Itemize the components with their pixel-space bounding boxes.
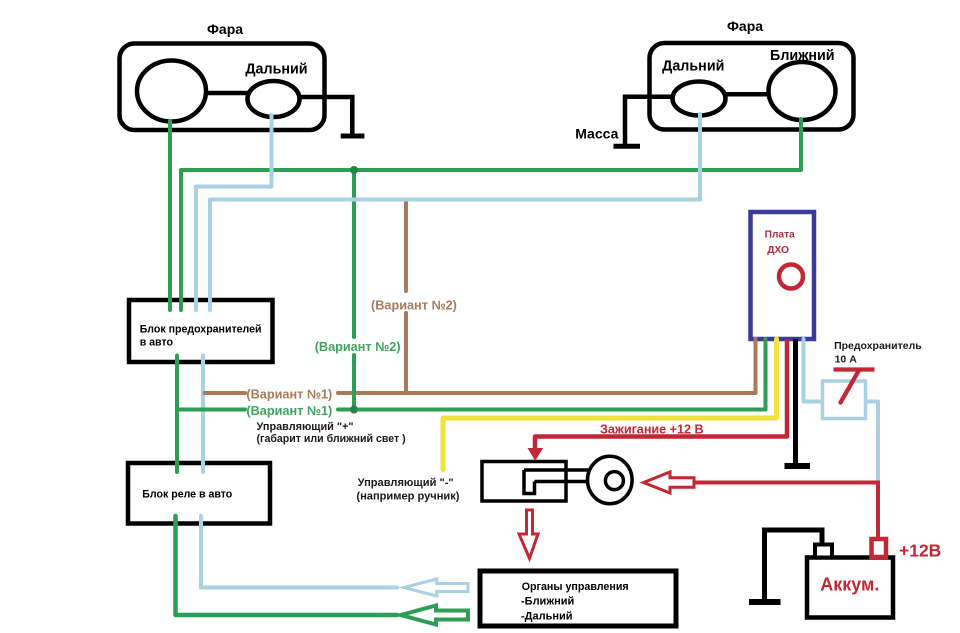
wire: green from right headlamp low-beam across to fuse box bbox=[181, 119, 801, 310]
svg-text:(например ручник): (например ручник) bbox=[356, 491, 459, 503]
svg-text:Дальний: Дальний bbox=[662, 59, 724, 75]
fuse F1 10A body bbox=[823, 381, 866, 419]
svg-text:Масса: Масса bbox=[575, 126, 618, 142]
right headlamp high-beam lamp bbox=[673, 82, 726, 116]
ground symbol: right headlamp bbox=[614, 144, 641, 149]
svg-text:Дальний: Дальний bbox=[245, 62, 307, 78]
wire: left headlamp to ground bbox=[300, 97, 353, 134]
wire: brown variant1 horizontal from light-blue tap to DRL board bbox=[205, 391, 246, 395]
ignition key shaft and bit bbox=[524, 470, 588, 494]
svg-text:Фара: Фара bbox=[727, 18, 763, 34]
ignition key switch body bbox=[482, 462, 566, 502]
ignition key head ring bbox=[588, 456, 633, 503]
svg-text:Управляющий "+": Управляющий "+" bbox=[257, 421, 354, 433]
wire: light blue from DRL board to fuse 10A bbox=[804, 339, 823, 402]
svg-text:Фара: Фара bbox=[207, 21, 243, 37]
arrow: green open arrow pointing left bbox=[401, 606, 468, 625]
ground symbol: left headlamp bbox=[341, 134, 365, 139]
battery negative terminal bbox=[815, 545, 832, 558]
left headlamp housing bbox=[120, 44, 325, 131]
wire: lamp interconnect right bbox=[726, 92, 769, 97]
DRL board indicator circle bbox=[779, 265, 803, 289]
ground symbol: DRL board ground bar bbox=[785, 463, 811, 469]
fuse F1 symbol red bbox=[834, 367, 875, 371]
svg-text:(Вариант №1): (Вариант №1) bbox=[246, 388, 332, 402]
svg-text:10 А: 10 А bbox=[835, 354, 858, 366]
left headlamp high-beam lamp bbox=[248, 81, 300, 117]
svg-text:+12В: +12В bbox=[899, 541, 941, 561]
arrow: light blue open arrow pointing left bbox=[404, 579, 468, 596]
right headlamp housing bbox=[650, 43, 854, 130]
wire: brown variant2 vertical from light-blue line bbox=[404, 200, 408, 292]
left headlamp low-beam lamp bbox=[137, 61, 206, 122]
ignition key head hole bbox=[605, 472, 623, 490]
arrow: red open arrow down from key to controls box bbox=[519, 510, 538, 559]
wire: green from relay box to controls (low beam) bbox=[176, 516, 398, 615]
wire: green variant1 horizontal to DRL board bbox=[177, 408, 245, 412]
svg-text:(Вариант №2): (Вариант №2) bbox=[315, 340, 401, 354]
svg-text:-Дальний: -Дальний bbox=[521, 611, 573, 623]
DRL board: Плата ДХО bbox=[751, 212, 815, 339]
wire: yellow control-minus from DRL board bbox=[443, 339, 777, 470]
svg-text:Блок реле в авто: Блок реле в авто bbox=[142, 489, 232, 501]
battery positive terminal bbox=[872, 539, 887, 557]
wire: light blue from fuse 10A to battery feed bbox=[866, 402, 878, 483]
svg-text:Органы управления: Органы управления bbox=[522, 581, 629, 593]
wire: light blue from fuse box bottom to relay box bbox=[201, 356, 205, 473]
svg-text:(Вариант №1): (Вариант №1) bbox=[246, 404, 332, 418]
wire: green from fuse box bottom to relay box bbox=[175, 356, 179, 473]
arrow: red open arrow pointing left at ignition key bbox=[644, 472, 695, 493]
wire: light blue from relay box to controls (high beam) bbox=[201, 516, 397, 588]
svg-text:-Ближний: -Ближний bbox=[521, 596, 574, 608]
wire: light blue from left headlamp high-beam down to fuse box bbox=[196, 115, 272, 310]
wire: red ignition +12V from DRL board to key bbox=[535, 339, 787, 449]
svg-text:Блок предохранителей: Блок предохранителей bbox=[140, 323, 262, 335]
fuse box: Блок предохранителей в авто bbox=[129, 300, 273, 362]
svg-text:Управляющий "-": Управляющий "-" bbox=[358, 477, 454, 489]
wire: light blue from right headlamp high-beam across to fuse box bbox=[210, 114, 700, 310]
wire stub: brown into DRL board bbox=[754, 339, 758, 345]
junction: green at top line bbox=[350, 166, 358, 174]
svg-text:Зажигание +12 В: Зажигание +12 В bbox=[600, 423, 704, 437]
wire: green variant2 vertical bbox=[352, 170, 356, 337]
svg-text:в авто: в авто bbox=[140, 337, 174, 349]
relay box: Блок реле в авто bbox=[128, 463, 270, 524]
wire: battery negative to ground bbox=[765, 530, 823, 599]
svg-text:Ближний: Ближний bbox=[770, 48, 835, 64]
wire: right headlamp to ground bbox=[625, 97, 673, 144]
ground symbol: battery bbox=[749, 599, 781, 605]
junction: green variant1/variant2 bbox=[350, 406, 358, 414]
svg-text:Аккум.: Аккум. bbox=[820, 575, 879, 595]
wire: lamp interconnect left bbox=[206, 91, 248, 96]
arrowhead: red into ignition key bbox=[528, 448, 544, 461]
wire: black ground from DRL board bbox=[793, 339, 798, 464]
svg-text:(Вариант №2): (Вариант №2) bbox=[371, 299, 457, 313]
svg-text:(габарит или ближний свет ): (габарит или ближний свет ) bbox=[257, 433, 406, 445]
battery: Аккум. bbox=[807, 558, 893, 618]
svg-text:ДХО: ДХО bbox=[767, 245, 789, 256]
wire: green from left headlamp low-beam down to fuse box bbox=[168, 121, 172, 310]
wire: red from battery + up and left to ignition arrow bbox=[694, 483, 878, 541]
svg-text:Предохранитель: Предохранитель bbox=[834, 340, 922, 352]
svg-text:Плата: Плата bbox=[765, 230, 795, 241]
right headlamp low-beam lamp bbox=[769, 62, 836, 120]
controls box: Органы управления bbox=[480, 571, 676, 626]
